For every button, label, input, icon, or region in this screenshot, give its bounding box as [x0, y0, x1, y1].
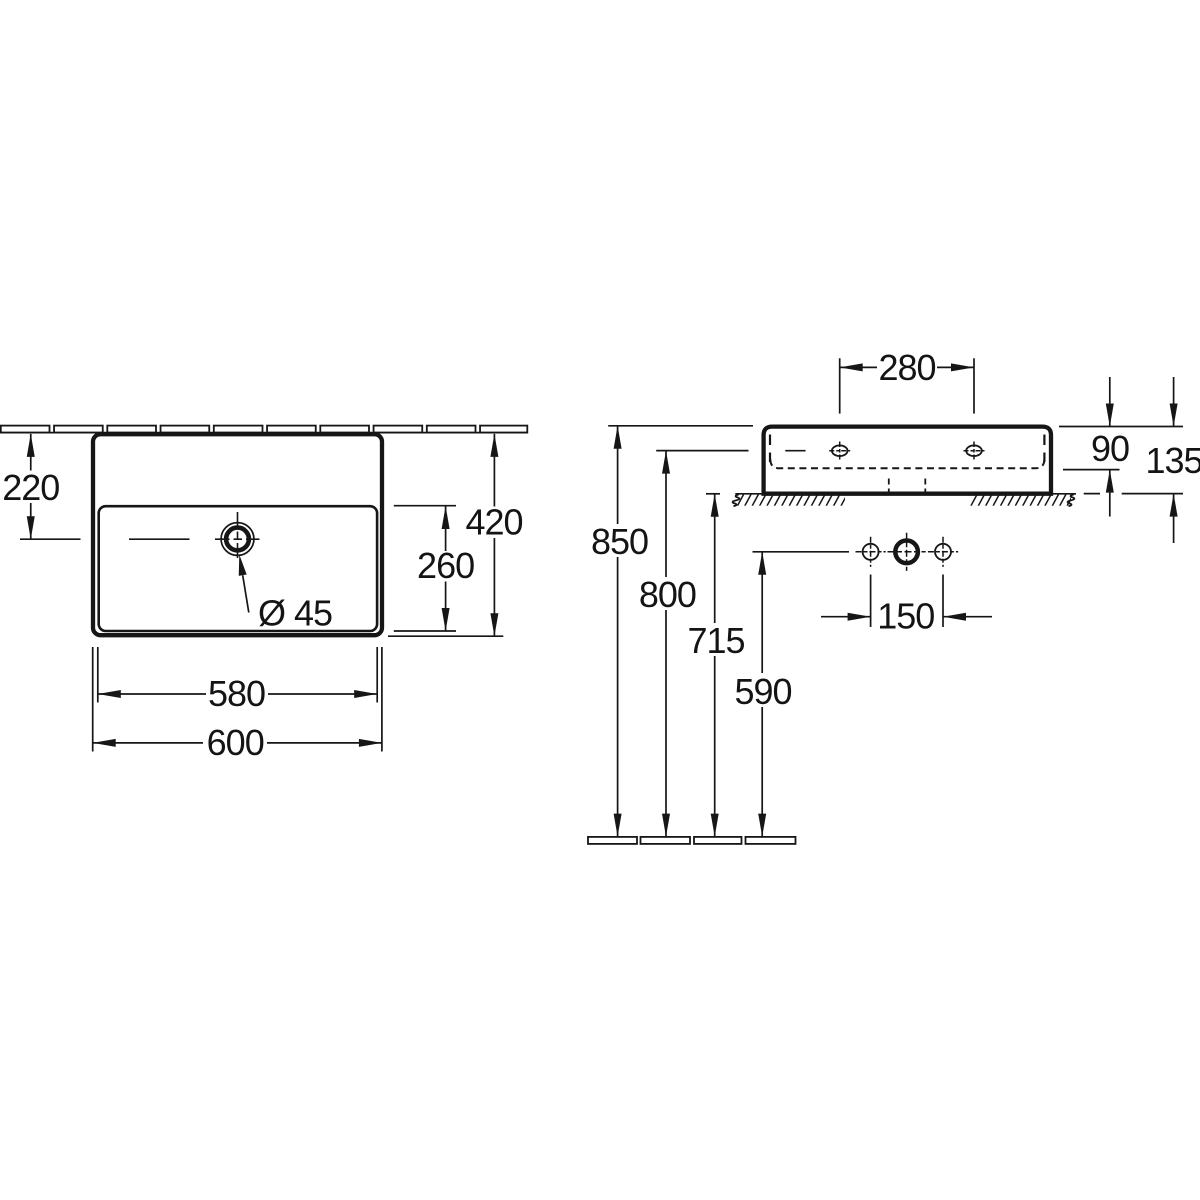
dim 590 extension [753, 551, 850, 553]
drain hidden line right [924, 479, 926, 493]
tap hole right ellipse [966, 445, 982, 456]
arrows dim 150 [848, 613, 871, 621]
svg-text:220: 220 [2, 467, 59, 508]
dim 260 top extension [394, 505, 456, 507]
svg-text:90: 90 [1091, 428, 1129, 469]
dim 590 line [761, 552, 763, 837]
faucet centerline horizontal segments [20, 538, 81, 540]
arrows dim 280 [840, 363, 863, 371]
tap hole left ellipse [832, 445, 848, 456]
dim 600 extension lines [92, 647, 94, 752]
basin body outline (front) [764, 427, 1051, 494]
dim 280 extension lines [839, 358, 841, 413]
interior bottom level extension [1063, 469, 1120, 471]
wall line (plan view top) [0, 432, 527, 434]
dim 800 line [665, 451, 667, 837]
wall tiles [1, 426, 528, 433]
dim 800 extension [656, 450, 748, 452]
support level dash segments [1084, 493, 1100, 495]
support surface line [735, 493, 1076, 495]
dim 850 extension [608, 425, 753, 427]
dim 150 extension lines [870, 575, 872, 628]
dim 135 lower line [1173, 494, 1175, 543]
drain hidden line left [888, 479, 890, 493]
faucet hole inner circle [226, 528, 249, 551]
drain hole big circle [895, 541, 918, 564]
dim 260 line [445, 506, 447, 631]
dim 850 line [617, 426, 619, 837]
arrows dim 580 [98, 690, 121, 698]
svg-text:280: 280 [878, 347, 935, 388]
svg-text:260: 260 [417, 545, 474, 586]
dim 90 upper line [1109, 377, 1111, 427]
wall hatch block [964, 494, 1081, 505]
arrows dim 715 [711, 494, 719, 517]
floor tiles [588, 837, 796, 844]
arrows dim 420 [490, 434, 498, 457]
basin outer outline (plan) [93, 434, 382, 635]
hatch break squiggle left [733, 494, 740, 506]
leader arrowhead [239, 555, 247, 576]
dim 580 line [98, 693, 377, 695]
dim 715 extension [706, 493, 720, 495]
dim 280 line [840, 366, 974, 368]
faucet hole outer circle [221, 523, 254, 556]
tap centerline dash left [785, 450, 805, 452]
svg-text:800: 800 [639, 574, 696, 615]
svg-text:150: 150 [877, 596, 934, 637]
arrows dim 600 [93, 739, 116, 747]
fixing hole left small circle [863, 544, 879, 560]
arrows dim 90 [1106, 404, 1114, 427]
dim 715 line [714, 494, 716, 837]
svg-text:600: 600 [207, 722, 264, 763]
arrows dim 260 [442, 506, 450, 529]
basin top extension line right [1059, 426, 1183, 428]
dim 220 line [30, 434, 32, 539]
dim 580 extension lines [97, 647, 99, 703]
interior hidden bottom dashed [770, 459, 1044, 468]
svg-text:590: 590 [734, 671, 791, 712]
arrows dim 800 [662, 451, 670, 474]
svg-text:715: 715 [687, 620, 744, 661]
hatch break squiggle right [1068, 494, 1075, 506]
dim 260 bottom extension [394, 630, 456, 632]
leader line for drain label [243, 575, 249, 612]
dim 90 lower line [1109, 470, 1111, 517]
fixing hole right small circle [935, 544, 951, 560]
arrows dim 850 [614, 426, 622, 449]
dim 150 line segments [821, 616, 871, 618]
arrows dim 590 [758, 552, 766, 575]
arrows dim 135 [1170, 404, 1178, 427]
arrows dim 220 [27, 434, 35, 457]
svg-text:850: 850 [591, 521, 648, 562]
interior hidden left wall dashed [769, 435, 771, 463]
dim 420 bottom extension [388, 635, 503, 637]
basin inner bowl outline (plan) [99, 506, 377, 631]
dim 135 upper line [1173, 377, 1175, 427]
interior hidden right wall dashed [1043, 435, 1045, 463]
svg-text:420: 420 [465, 502, 522, 543]
svg-text:135: 135 [1145, 440, 1200, 481]
faucet centerline vertical [237, 512, 239, 562]
wall hatch block [730, 494, 855, 505]
dim 600 line [93, 742, 382, 744]
svg-text:580: 580 [208, 673, 265, 714]
svg-text:Ø 45: Ø 45 [258, 593, 332, 634]
dim 420 line [493, 434, 495, 636]
